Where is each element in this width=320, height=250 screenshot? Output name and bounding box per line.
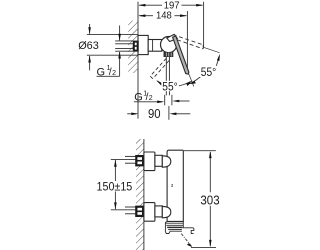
svg-text:90: 90 [148,107,161,121]
svg-text:55°: 55° [201,65,217,79]
svg-text:148: 148 [156,11,172,22]
svg-text:2: 2 [112,70,116,77]
svg-text:150±15: 150±15 [97,180,133,194]
svg-text:2: 2 [149,95,153,102]
svg-text:G: G [97,66,106,78]
svg-text:55°: 55° [162,79,178,93]
svg-text:303: 303 [200,192,219,207]
svg-text:G: G [134,92,143,104]
svg-text:Ø63: Ø63 [78,40,99,52]
